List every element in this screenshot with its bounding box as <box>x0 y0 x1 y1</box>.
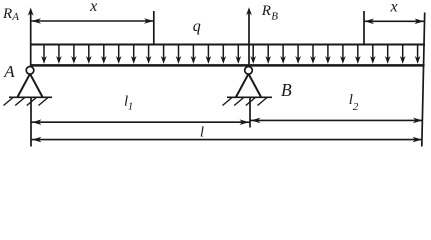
svg-text:q: q <box>193 18 201 35</box>
svg-text:x: x <box>389 0 397 16</box>
svg-text:R: R <box>2 6 12 22</box>
svg-text:A: A <box>3 62 15 81</box>
svg-text:1: 1 <box>128 100 134 112</box>
svg-text:A: A <box>11 11 19 23</box>
svg-text:B: B <box>281 80 292 100</box>
svg-text:x: x <box>89 0 97 15</box>
svg-text:2: 2 <box>353 101 359 113</box>
svg-text:B: B <box>271 11 278 23</box>
svg-text:l: l <box>200 124 204 140</box>
svg-text:R: R <box>261 3 271 19</box>
